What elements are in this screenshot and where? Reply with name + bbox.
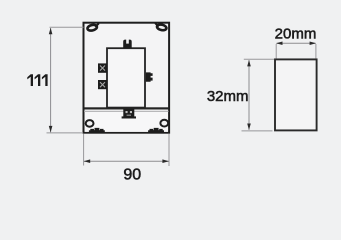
bottom terminal block <box>122 109 136 119</box>
top clip tab <box>123 40 132 48</box>
width extension line right <box>168 134 170 166</box>
top-right terminal slot <box>156 24 167 32</box>
left clip upper <box>98 63 107 72</box>
depth extension line left <box>275 44 277 59</box>
depth dimension line 20mm <box>276 42 316 46</box>
label 90 <box>123 166 141 183</box>
height extension line top <box>50 26 84 28</box>
right mounting foot <box>148 128 164 133</box>
base section face <box>85 110 168 132</box>
left mounting hole <box>86 120 94 127</box>
label 20mm <box>275 25 317 42</box>
right mounting hole <box>160 120 168 127</box>
CT body outline (front view) <box>84 23 170 133</box>
base divider line <box>84 107 169 112</box>
left mounting foot <box>89 128 105 133</box>
side height extension line top <box>244 58 274 60</box>
width dimension line 90 <box>84 159 169 163</box>
depth extension line right <box>315 44 317 59</box>
side view body <box>275 59 317 130</box>
svg-text:32mm: 32mm <box>207 88 249 105</box>
side height extension line bottom <box>242 130 273 132</box>
right clip <box>146 72 153 81</box>
window opening (inner rectangle) <box>107 48 145 107</box>
height extension line bottom <box>47 132 84 134</box>
width extension line left <box>83 134 85 166</box>
height dimension line 111 <box>49 28 53 133</box>
label 111 <box>27 74 47 86</box>
top-left terminal slot <box>87 24 98 32</box>
label 32mm <box>207 88 249 105</box>
left clip lower <box>98 80 107 89</box>
svg-text:20mm: 20mm <box>275 25 317 42</box>
svg-text:90: 90 <box>123 166 141 183</box>
side height dimension line 32mm <box>247 60 251 130</box>
